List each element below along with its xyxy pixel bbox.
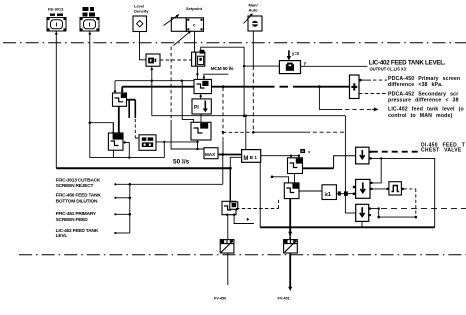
wire cross link bottom: [379, 216, 416, 218]
svg-text:FFIC-450 FEED TANK: FFIC-450 FEED TANK: [56, 193, 102, 199]
transmitter FT1 label: [48, 7, 64, 16]
wire transfer output down: [196, 66, 198, 79]
delay3 output ticks: [369, 208, 371, 210]
pulse block: [389, 182, 402, 195]
analog output AO2: [284, 240, 298, 253]
lag block C2: [191, 122, 211, 140]
svg-text:LIC-402 feed tank level (o: LIC-402 feed tank level (o: [388, 107, 464, 113]
wire C6 tap right: [234, 215, 254, 224]
wire MB1 right output to D1: [261, 155, 299, 157]
wire D1 bottom to D2: [294, 174, 296, 183]
svg-text:pressure difference < 38: pressure difference < 38: [388, 98, 459, 104]
svg-text:FE-3013: FE-3013: [48, 7, 64, 12]
wire AO2 to valve thick: [289, 253, 291, 288]
boundary dash-dot line upper: [3, 42, 466, 44]
thick output bus bottom: [260, 226, 435, 228]
label FFIC-451: [56, 211, 97, 223]
svg-text:PDCA-452 Secondary scr: PDCA-452 Secondary scr: [388, 92, 458, 98]
svg-text:OUTPUT CL.LIS X3: OUTPUT CL.LIS X3: [370, 66, 407, 71]
delay block 1: [356, 147, 369, 164]
svg-text:Auto: Auto: [249, 8, 259, 13]
svg-text:B 1: B 1: [250, 155, 258, 160]
wire thick signal line into K1: [122, 86, 194, 88]
lag block C3: [113, 93, 127, 106]
svg-text:FV-450: FV-450: [214, 297, 226, 301]
man/auto station: [248, 16, 262, 31]
wire C6 to AO1: [227, 215, 229, 240]
wire dashed feedback into D2 bottom: [278, 199, 280, 209]
OR gate: [322, 185, 336, 200]
svg-text:CHEST VALVE O: CHEST VALVE O: [421, 148, 466, 154]
svg-text:SCREEN REJECT: SCREEN REJECT: [56, 183, 94, 189]
function block f(x): [139, 135, 156, 151]
wire FT2 down: [89, 31, 91, 123]
wire multiplier dashed to transfer: [160, 59, 192, 61]
wire PI to C2: [200, 114, 202, 122]
wire C4 output right-down: [123, 142, 129, 157]
svg-text:FFIC-3013 CUTBACK: FFIC-3013 CUTBACK: [56, 178, 101, 184]
controller PI: [192, 99, 211, 114]
label FFIC-450: [56, 193, 102, 205]
delay block 3: [356, 204, 369, 221]
wire into C4 top-left: [112, 123, 114, 133]
block MB1: [242, 150, 261, 163]
svg-text:M: M: [243, 156, 248, 162]
wire level elem to multiplier: [140, 32, 147, 60]
svg-text:SCREEN FEED: SCREEN FEED: [56, 217, 89, 223]
svg-text:PI: PI: [194, 105, 199, 111]
label LIC-402: [56, 228, 99, 239]
wire C2 bottom to MAX: [197, 140, 199, 149]
wire tieback column: [222, 88, 224, 141]
wire thin bend into C2 top: [182, 81, 193, 123]
wire multiplier output down: [151, 66, 153, 116]
wire D2 thick output down to AO2: [289, 199, 291, 237]
wire FT2 loop rectangle: [90, 123, 114, 158]
comparator output ticks: [359, 79, 362, 82]
transmitter FT2 label: [83, 7, 96, 17]
wire thick K1 output line: [212, 86, 267, 88]
svg-text:MAX: MAX: [205, 152, 216, 157]
wire C6 dashed output right: [236, 208, 279, 210]
wire MAN-mode tap with arrow: [319, 87, 338, 110]
controller K1: [194, 79, 212, 93]
annotation PDCA-452: [388, 92, 459, 104]
annotation LIC-402 FEED TANK LEVEL: [369, 59, 446, 71]
annotation LIC-402 feed tank level: [388, 107, 464, 119]
lag block C4: [108, 133, 123, 150]
annotation PDCA-450: [388, 76, 460, 88]
annotation DI-450: [421, 142, 466, 153]
wire sum feed into MB1: [245, 116, 247, 150]
man/auto label: [249, 3, 259, 13]
svg-text:BOTTOM DILUTION: BOTTOM DILUTION: [56, 198, 98, 204]
setpoint station corner dots and c: [187, 19, 202, 31]
wire K1 to PI: [200, 94, 202, 99]
svg-text:y=0: y=0: [292, 51, 300, 56]
wire setpoint loop to sum: [201, 47, 244, 116]
wire D1 thick output to delay1: [303, 167, 334, 169]
multiplier block |x|: [146, 54, 160, 66]
C6 bottom nodes: [226, 214, 228, 216]
wire FT1 down: [55, 31, 57, 168]
wire setpoint to transfer: [194, 31, 196, 52]
svg-text:control to MAN mode): control to MAN mode): [388, 113, 452, 119]
wire sum output y: [301, 65, 368, 67]
wire setpoint dashed track down: [170, 47, 172, 121]
wire delay1 dashed annunciator line: [372, 151, 420, 153]
sum block top: [279, 61, 300, 74]
comparator block: [350, 75, 360, 99]
svg-text:LEVL: LEVL: [56, 233, 68, 239]
wire delay1 solid output right-down: [372, 158, 435, 227]
svg-text:50 l/s: 50 l/s: [173, 158, 190, 165]
wire C3 bottom output: [118, 106, 120, 133]
wire long vertical feed: [344, 116, 346, 213]
analog output AO1: [220, 240, 234, 253]
svg-text:Setpoint: Setpoint: [186, 6, 203, 11]
svg-text:MCM 50 l/s: MCM 50 l/s: [211, 66, 234, 72]
setpoint adjust arrow: [164, 15, 180, 26]
label FFIC-3013: [56, 178, 101, 190]
delay1 output ticks: [369, 151, 371, 153]
delay block 2: [356, 179, 370, 198]
lag block C6 (left output drive): [222, 201, 236, 214]
lag block D2: [284, 183, 299, 199]
svg-text:Density: Density: [134, 9, 149, 14]
wire dashed output right: [381, 208, 466, 210]
label bus left: [115, 183, 223, 185]
wire OR column into delay3: [345, 212, 355, 214]
wire C3 right output branches: [127, 99, 136, 101]
svg-text:difference <38 kPa.: difference <38 kPa.: [388, 82, 443, 88]
wire pulse output dashed down: [404, 188, 416, 190]
setpoint long diagonal: [174, 31, 192, 46]
level/density label: [134, 4, 149, 14]
wire MCM setpoint line: [204, 74, 228, 79]
wire thin PV line: [115, 80, 194, 82]
wire MB1 bottom output to bus: [259, 162, 261, 227]
connector DI 2: [300, 149, 305, 153]
svg-text:FFIC-451 PRIMARY: FFIC-451 PRIMARY: [56, 211, 97, 217]
transmitter FT2 (right): [80, 18, 99, 32]
transmitter FT1 (left): [47, 18, 66, 32]
transfer block T: [192, 52, 205, 66]
wire delay3 bottom to bus: [361, 221, 363, 227]
boundary dash-dot line lower: [19, 254, 466, 256]
lag block D1: [288, 158, 303, 174]
svg-text:LIC-402 FEED TANK LEVEL.: LIC-402 FEED TANK LEVEL.: [369, 59, 446, 66]
wire man/auto down (solid then dashed): [252, 31, 254, 66]
wire OR output to delay2: [336, 193, 355, 195]
setpoint station: [171, 18, 203, 32]
wire dashed cross link: [223, 131, 253, 133]
delay2 outputs: [370, 182, 372, 184]
svg-text:≥1: ≥1: [325, 192, 332, 198]
wire big loop bottom thick: [56, 167, 230, 169]
wire parameter arrow into sum: [288, 50, 290, 57]
wire D2 to OR gate: [299, 190, 322, 192]
wire link to OR gate: [253, 131, 306, 133]
node junction with cross: [271, 176, 274, 179]
wire AO1 to valve: [227, 253, 229, 285]
wire flow line across: [152, 115, 346, 117]
svg-text:FV-451: FV-451: [278, 297, 290, 301]
wire f(x) to C2 bottom line: [156, 141, 198, 143]
wire sum left input: [244, 65, 279, 67]
selector MAX: [204, 148, 218, 159]
level/density element: [133, 16, 147, 32]
wire MAX to MB1 thick: [218, 154, 242, 156]
